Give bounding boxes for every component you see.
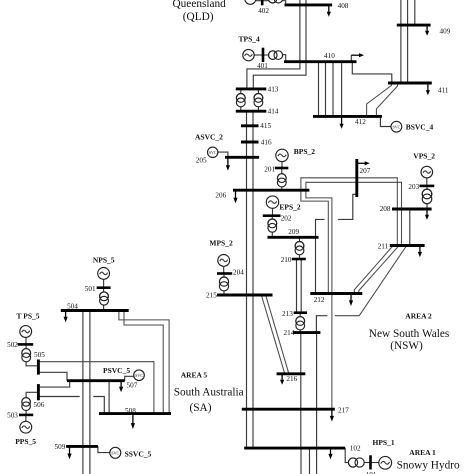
wire VPS_2 transformer stem 203-208 <box>426 186 428 209</box>
bus 409 <box>397 24 431 27</box>
bus 412 <box>313 115 382 118</box>
svg-text:PPS_5: PPS_5 <box>15 437 36 446</box>
SVC ASVC_2 <box>208 147 218 157</box>
node 503 bus tick <box>19 414 33 417</box>
generator VPS_2 <box>421 166 433 178</box>
bus 211 <box>390 244 425 247</box>
export arrow bus 410 (points right) <box>351 53 364 57</box>
wire BPS_2 transformer stem 201-206 <box>281 168 283 190</box>
transformer T413-414 left <box>236 94 245 107</box>
svg-text:413: 413 <box>268 86 279 94</box>
svg-text:506: 506 <box>34 401 45 409</box>
svg-text:509: 509 <box>55 443 66 451</box>
node 204 bus tick <box>217 272 232 275</box>
wire PPS_5 transformer to bus 506 <box>26 392 38 398</box>
bus 208 <box>392 208 432 211</box>
bus 214 <box>293 331 321 334</box>
bus 507 <box>67 379 125 382</box>
wire line to bus 409 B (vertical from top) <box>407 0 409 25</box>
bus 209 <box>268 236 319 239</box>
svg-text:102: 102 <box>350 445 361 453</box>
svg-text:SSVC_5: SSVC_5 <box>125 449 152 458</box>
load arrow bus 508 <box>131 414 135 430</box>
wire bus 102 to HPS_1 chain <box>345 448 348 462</box>
wire transformer 213-214 stem <box>299 313 301 333</box>
wire line 211-214 continuation after break <box>316 316 327 333</box>
wire line 206-212 (down right down, ends at bus 212) <box>301 190 328 293</box>
transformer T503-506 <box>22 398 31 411</box>
wire line 208-211 <box>409 209 411 246</box>
bus 508 <box>99 412 171 415</box>
bus 504 <box>61 309 129 312</box>
generator G402 (clipped at top) <box>245 0 256 4</box>
svg-text:SVC: SVC <box>209 150 217 155</box>
node 202 bus tick <box>263 214 281 217</box>
svg-text:409: 409 <box>440 28 451 36</box>
wire line 504-508 A (outer jog) <box>119 311 169 414</box>
wire line 409-411 A <box>400 25 402 83</box>
load arrow bus 205 <box>226 157 230 170</box>
wire line 504-508 B (inner jog) <box>124 311 163 414</box>
bus 205 <box>225 156 259 159</box>
node 203 bus tick <box>420 185 435 188</box>
transformer T209-210 <box>295 242 304 255</box>
load arrow bus 509 <box>67 446 71 459</box>
wire line 410-411 (jog right) <box>352 62 392 83</box>
svg-text:415: 415 <box>260 122 271 130</box>
bus 414 <box>236 110 266 113</box>
wire line 211-212 A (slanted) <box>354 246 393 294</box>
transformer T204-215 <box>219 277 228 291</box>
wire line below bus 102 B <box>309 448 311 474</box>
wire line 410-412 no4 <box>341 62 343 117</box>
wire line 506-508 left segment (break at crossing) <box>39 396 80 398</box>
svg-text:Snowy Hydro: Snowy Hydro <box>397 460 460 472</box>
node 501 bus tick <box>97 286 111 289</box>
generator PPS_5 <box>20 421 32 433</box>
wire line 211-214 slant and jog with crossover break <box>335 246 407 316</box>
node 101 bus tick <box>369 455 372 469</box>
bus 413 <box>236 87 266 90</box>
svg-text:202: 202 <box>281 215 292 223</box>
svg-text:203: 203 <box>408 183 419 191</box>
wire bus 207 to 212 (left down left with crossover break) <box>338 194 357 219</box>
load arrow bus 507 <box>119 381 123 393</box>
wire TPS_5 generator to bus 502 <box>25 337 27 344</box>
wire PPS_5 generator to bus 503 <box>25 415 27 421</box>
wire line 411-412 B (slanted) <box>376 83 397 116</box>
load arrow bus 208 <box>425 209 429 220</box>
node 502 bus tick <box>18 343 34 346</box>
svg-text:216: 216 <box>286 375 297 383</box>
bus 207 (vertical) <box>355 159 358 197</box>
wire bus 509 to SSVC_5 <box>98 446 110 452</box>
svg-text:401: 401 <box>257 62 268 70</box>
generator BPS_2 <box>276 149 288 161</box>
svg-text:209: 209 <box>288 228 299 236</box>
svg-text:408: 408 <box>338 2 349 10</box>
wire EPS_2 transformer stem 202-209 <box>271 216 273 238</box>
wire bus 410 export arrow riser <box>350 55 352 62</box>
transformer T213-214 <box>296 317 305 330</box>
transformer T501-504 <box>100 292 109 305</box>
svg-text:402: 402 <box>258 7 269 15</box>
wire line 410-413 B (jog left) <box>253 62 306 89</box>
bus 408 <box>285 3 333 6</box>
load arrow bus 412 <box>340 116 344 128</box>
wire 401-transformer to bus 410 drop <box>283 55 286 62</box>
wire TPS_4 chain horizontal <box>254 54 268 56</box>
wire line 206-211 B (n-box inner: up right down) <box>306 182 402 245</box>
wire line 506-508 right segment <box>93 397 104 414</box>
svg-text:507: 507 <box>127 382 138 390</box>
wire HPS_1 transformer to bus 101 <box>364 462 370 464</box>
SVC SSVC_5 <box>110 447 121 458</box>
wire line 214-102 (long vertical crossing 216 and 217) <box>300 333 302 449</box>
wire EPS_2 generator to bus 202 <box>272 208 274 215</box>
wire MPS_2 transformer stem 204-215 <box>223 274 225 296</box>
svg-text:BSVC_4: BSVC_4 <box>406 122 434 131</box>
svg-text:T PS_5: T PS_5 <box>17 312 40 321</box>
wire line 214-102 right vertical (crossing 217) <box>316 333 318 449</box>
svg-text:213: 213 <box>282 310 293 318</box>
svg-text:AREA 2: AREA 2 <box>405 312 432 321</box>
bus 206 <box>233 189 309 192</box>
svg-text:ASVC_2: ASVC_2 <box>195 133 223 142</box>
wire line 505-507 <box>38 372 67 380</box>
svg-text:VPS_2: VPS_2 <box>413 151 435 160</box>
transformer T202-209 <box>268 219 277 232</box>
generator TPS_4 <box>243 49 254 60</box>
svg-text:508: 508 <box>125 407 136 415</box>
wire VPS_2 generator to bus 203 <box>426 178 428 186</box>
wire line below bus 102 A <box>300 448 302 474</box>
svg-text:SVC: SVC <box>135 373 143 378</box>
svg-text:South Australia: South Australia <box>174 386 244 398</box>
wire MPS_2 generator to bus 204 <box>223 266 225 273</box>
bus 102 <box>244 447 345 450</box>
bus 217 <box>242 408 335 411</box>
load arrow bus 217 <box>330 409 334 421</box>
wire NPS_5 generator to bus 501 <box>103 279 105 287</box>
wire line to bus 409 C (vertical from top) <box>414 0 416 25</box>
svg-text:206: 206 <box>215 192 226 200</box>
transformer T402-408 (clipped at top) <box>268 0 282 3</box>
generator HPS_1 <box>379 456 392 469</box>
load arrow bus 211 <box>418 246 422 258</box>
svg-text:414: 414 <box>268 108 279 116</box>
wire line 215-216 B (slanted) <box>266 296 289 374</box>
wire bus 412 to BSVC_4 <box>380 116 391 126</box>
node 201 bus tick <box>275 167 289 170</box>
load arrow bus 408 <box>327 5 331 17</box>
svg-text:(QLD): (QLD) <box>183 11 214 23</box>
wire bus 101 to HPS_1 generator <box>371 462 379 464</box>
wire line 410-412 no3 <box>332 62 334 117</box>
svg-text:505: 505 <box>34 351 45 359</box>
bus 215 <box>217 294 273 297</box>
svg-text:BPS_2: BPS_2 <box>294 147 316 156</box>
svg-text:PSVC_5: PSVC_5 <box>103 366 130 375</box>
generator TPS_5 <box>20 326 32 338</box>
transformer T201-206 <box>277 174 286 187</box>
transformer T102-101 <box>348 458 364 467</box>
wire line 405-410 A (left long vertical from top) <box>299 0 301 62</box>
wire NPS_5 transformer stem 501-504 <box>103 288 105 311</box>
bus 212 <box>310 292 362 295</box>
svg-text:(SA): (SA) <box>190 402 212 414</box>
wire line 410-413 A (jog left) <box>247 62 300 89</box>
wire line 211-212 B (slanted) <box>359 246 399 294</box>
bus 216 <box>277 372 306 375</box>
wire line 210-213 B <box>300 259 302 313</box>
wire line 210-213 A <box>296 259 298 313</box>
bus 416 <box>241 141 259 144</box>
wire line to bus 409 A (vertical from top) <box>400 0 402 25</box>
svg-text:416: 416 <box>261 138 272 146</box>
svg-text:New South Wales: New South Wales <box>369 328 449 340</box>
node 401 bus tick <box>262 48 265 62</box>
svg-text:(NSW): (NSW) <box>390 340 423 352</box>
wire line 206-217 (down right down, crosses 212, ends at bus 217) <box>306 190 332 409</box>
load arrow bus 212 <box>349 294 353 307</box>
svg-text:411: 411 <box>438 87 449 95</box>
svg-text:210: 210 <box>281 256 292 264</box>
svg-text:501: 501 <box>85 285 96 293</box>
node 210 bus tick <box>292 258 306 261</box>
SVC BSVC_4 <box>391 121 402 132</box>
transformer T203-208 <box>422 189 432 204</box>
wire bus 507 to PSVC_5 <box>125 376 134 380</box>
svg-text:410: 410 <box>324 52 335 60</box>
load arrow bus 409 <box>425 25 429 36</box>
wire transformer 209-210 stem <box>299 237 301 259</box>
load arrow bus 504 <box>64 311 68 323</box>
export arrow bus 207 (points right) <box>357 161 370 165</box>
bus 505 (vertical bar) <box>37 360 40 375</box>
node 213 bus tick <box>294 311 307 314</box>
svg-text:214: 214 <box>284 329 295 337</box>
wire line 409-411 B <box>407 25 409 83</box>
svg-text:AREA 5: AREA 5 <box>181 371 208 380</box>
wire line 504-509 B (long vertical to bottom edge) <box>89 311 91 474</box>
generator NPS_5 <box>98 268 110 280</box>
wire ASVC_2 to bus 205 <box>218 152 228 157</box>
svg-text:Queensland: Queensland <box>173 0 227 10</box>
svg-text:HPS_1: HPS_1 <box>373 438 395 447</box>
svg-text:502: 502 <box>7 341 18 349</box>
svg-text:412: 412 <box>355 118 366 126</box>
load arrow bus 216 <box>280 374 284 385</box>
svg-text:TPS_4: TPS_4 <box>239 34 261 43</box>
svg-text:204: 204 <box>233 269 244 277</box>
load arrow bus 102 <box>328 448 332 459</box>
wire transformer 413-414 left stem <box>240 89 242 111</box>
svg-text:205: 205 <box>196 157 207 165</box>
wire line below bus 102 C <box>316 448 318 474</box>
svg-text:503: 503 <box>7 412 18 420</box>
wire line 405-410 B (right long vertical from top) <box>305 0 307 62</box>
bus 509 <box>66 445 98 448</box>
svg-text:EPS_2: EPS_2 <box>279 203 301 212</box>
wire line 411-412 A (slanted) <box>367 83 392 116</box>
wire line 215-216 A (slanted) <box>262 296 285 374</box>
transformer T413-414 right <box>254 94 263 107</box>
wire transformer 413-414 right stem <box>257 89 259 111</box>
bus 506 (vertical bar) <box>37 384 40 400</box>
wire 402-transformer to bus 408 drop <box>282 1 286 5</box>
wire line 504-509 A (long vertical to bottom edge) <box>82 311 84 474</box>
svg-text:NPS_5: NPS_5 <box>93 255 115 264</box>
wire line 505-508 (top long horizontal then down) <box>38 362 153 414</box>
svg-text:215: 215 <box>206 292 217 300</box>
wire BPS_2 generator to bus 201 <box>281 162 283 168</box>
wire line 410-412 no2 <box>325 62 327 117</box>
bus 415 <box>241 124 259 127</box>
load arrow bus 206 <box>233 190 237 203</box>
svg-text:217: 217 <box>338 407 349 415</box>
wire long interconnector 414-102 B (crosses 415,416,205,206,215,217) <box>252 111 254 448</box>
load arrow bus 411 <box>426 83 430 95</box>
transformer T401-410 <box>269 51 283 60</box>
node 402 bus tick <box>261 0 264 5</box>
svg-text:SVC: SVC <box>393 124 401 129</box>
wire generator-402 chain horizontal stub <box>256 0 269 2</box>
wire line 507-508 <box>108 381 110 414</box>
svg-text:504: 504 <box>67 302 78 310</box>
wire PPS_5 transformer stem to bus 503 <box>25 410 27 415</box>
svg-text:201: 201 <box>264 165 275 173</box>
bus 411 <box>388 82 432 85</box>
generator MPS_2 <box>218 255 230 267</box>
svg-text:SVC: SVC <box>111 451 119 456</box>
wire line 206-211 A (n-box outer: up right down) <box>301 178 397 246</box>
svg-text:208: 208 <box>380 205 391 213</box>
wire TPS_5 transformer stem 502-505 <box>26 344 38 365</box>
svg-text:AREA 1: AREA 1 <box>409 448 436 457</box>
wire line 506-507 riser <box>39 381 70 387</box>
wire long interconnector 414-102 A (crosses 415,416,205,206,215,217) <box>246 111 248 448</box>
svg-text:MPS_2: MPS_2 <box>209 239 233 248</box>
svg-text:212: 212 <box>314 296 325 304</box>
SVC PSVC_5 <box>134 370 145 381</box>
svg-text:207: 207 <box>360 167 371 175</box>
transformer T502-505 <box>22 349 31 362</box>
generator EPS_2 <box>266 196 278 208</box>
svg-text:211: 211 <box>378 243 389 251</box>
wire line 410-412 no1 <box>318 62 320 117</box>
wire bus 207 to 212 continuation after break <box>316 219 325 293</box>
bus 410 <box>284 60 357 63</box>
